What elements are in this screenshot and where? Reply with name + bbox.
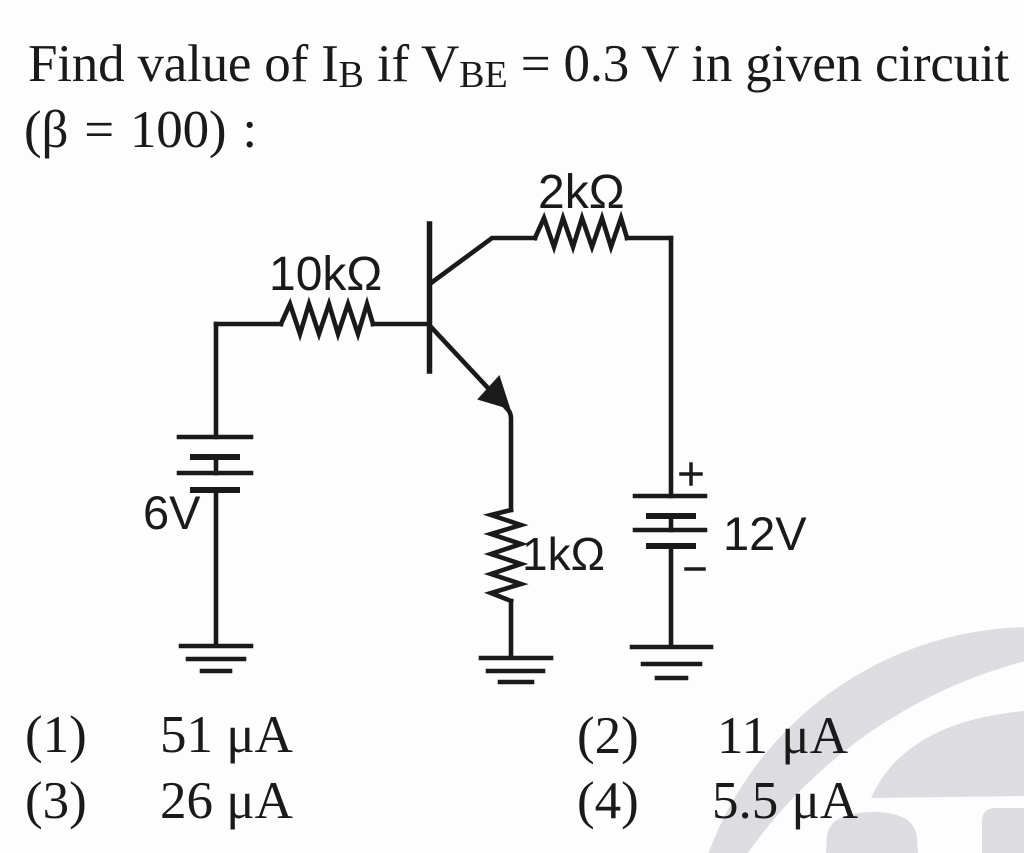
transistor Q1 emitter lead: [431, 327, 502, 403]
wire 6V to ground: [214, 490, 219, 645]
resistor R1 10k zigzag: [281, 304, 373, 334]
ground right: [632, 645, 711, 650]
svg-text:6V: 6V: [143, 486, 201, 539]
watermark swoosh inner punch: [657, 645, 1024, 853]
watermark letter blob right: [982, 808, 1024, 853]
battery V2 12V minus sign: [686, 567, 704, 571]
option 1: [25, 709, 87, 762]
resistor R2 2k zigzag: [535, 218, 627, 247]
ground emitter: [481, 656, 551, 661]
transistor Q1 base bar: [427, 224, 433, 371]
wire right vertical: [669, 238, 674, 496]
battery V2 12V plus sign: [681, 472, 701, 476]
transistor Q1 collector lead: [431, 238, 535, 283]
option 2: [577, 710, 639, 763]
watermark flag: [871, 711, 1024, 798]
battery V2 12V plates: [635, 494, 705, 499]
watermark letter blob left: [826, 812, 918, 853]
title line 1: [28, 38, 1009, 96]
wire left vertical: [214, 324, 219, 437]
wire base-left horizontal: [216, 322, 281, 327]
option 3: [25, 775, 87, 828]
wire resistor to base: [373, 322, 428, 327]
transistor Q1 emitter arrowhead: [479, 377, 509, 408]
svg-text:2kΩ: 2kΩ: [538, 166, 625, 219]
watermark swoosh outer: [687, 627, 1024, 853]
svg-text:1kΩ: 1kΩ: [522, 528, 605, 580]
wire 1k to ground: [509, 601, 514, 657]
wire 12V to ground: [669, 546, 674, 646]
battery V1 6V plates: [179, 435, 251, 440]
wire 2k to corner: [627, 236, 671, 241]
svg-text:12V: 12V: [723, 507, 807, 560]
option 4: [577, 775, 639, 828]
title line 2: [24, 104, 257, 157]
wire emitter bend: [502, 403, 511, 510]
resistor R3 1k zigzag vertical: [491, 510, 521, 601]
ground left: [181, 644, 251, 649]
svg-text:10kΩ: 10kΩ: [269, 248, 382, 301]
